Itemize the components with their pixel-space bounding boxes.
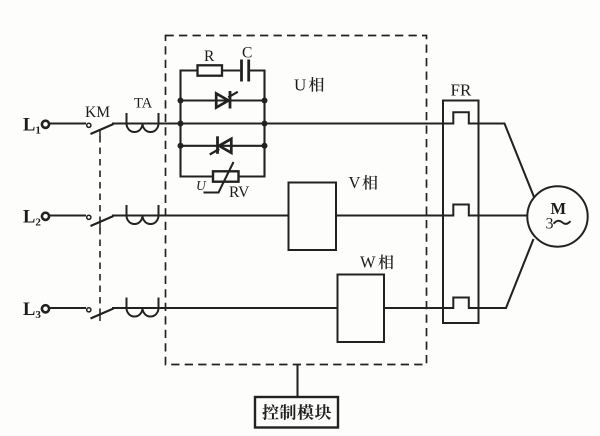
wire L3 to KM bbox=[50, 307, 86, 309]
U-phase right bus bbox=[263, 71, 265, 177]
junction dot bbox=[178, 143, 184, 149]
thermal relay FR box bbox=[443, 101, 479, 324]
contactor KM pole (row L2) bbox=[87, 215, 91, 219]
wire C to right bus bbox=[250, 70, 266, 72]
resistor R bbox=[198, 65, 223, 75]
wire RV branch left bbox=[180, 176, 214, 178]
control module box bbox=[255, 397, 338, 428]
thyristor VT2 (reverse) bbox=[219, 139, 231, 153]
wire FR to motor (top) bbox=[479, 124, 535, 198]
FR heater element row3 bbox=[442, 298, 480, 309]
W-phase module box bbox=[338, 275, 385, 343]
wire RC branch left bbox=[180, 70, 198, 72]
wire SCR2 branch bbox=[181, 145, 265, 147]
motor M circle bbox=[527, 186, 587, 246]
wire enclosure to control module bbox=[296, 365, 298, 398]
junction dot bbox=[178, 121, 184, 127]
wire TA to V-phase box bbox=[159, 214, 289, 216]
wire KM through TA bbox=[112, 307, 162, 309]
current transformer TA (row L3) bbox=[127, 298, 159, 317]
wire L1 to KM bbox=[50, 122, 86, 124]
wire U network to FR bbox=[265, 122, 444, 124]
contactor KM pole (row L3) bbox=[87, 308, 91, 312]
current transformer TA (row L2) bbox=[127, 205, 159, 224]
svg-text:W: W bbox=[360, 253, 376, 272]
svg-text:U: U bbox=[196, 178, 207, 193]
wire RV to right bus bbox=[239, 176, 266, 178]
svg-text:TA: TA bbox=[134, 96, 153, 112]
wire SCR1 branch bbox=[181, 99, 265, 101]
contactor KM pole (row L1) bbox=[87, 123, 91, 127]
wire FR to motor (middle) bbox=[479, 214, 528, 216]
wire FR to motor (bottom) bbox=[479, 239, 534, 308]
U-phase left bus bbox=[179, 71, 181, 177]
svg-text:R: R bbox=[204, 48, 215, 65]
wire KM through TA bbox=[112, 122, 162, 124]
wire W box to FR bbox=[384, 307, 443, 309]
capacitor C bbox=[240, 60, 243, 82]
svg-text:KM: KM bbox=[85, 104, 110, 121]
junction dot bbox=[178, 98, 184, 104]
wire V box to FR bbox=[336, 214, 443, 216]
wire R to C bbox=[222, 70, 240, 72]
terminal L3 circle bbox=[42, 305, 49, 312]
V-phase module box bbox=[289, 183, 337, 251]
varistor RV bbox=[213, 171, 239, 181]
wire U main row bbox=[181, 122, 265, 124]
thyristor VT1 (forward) bbox=[216, 94, 228, 108]
junction dot bbox=[262, 98, 268, 104]
svg-text:3: 3 bbox=[546, 216, 554, 233]
FR heater element row1 bbox=[442, 112, 480, 123]
KM mechanical linkage dashed line bbox=[99, 136, 101, 319]
wire L2 to KM bbox=[50, 214, 86, 216]
FR heater element row2 bbox=[442, 205, 480, 216]
svg-text:RV: RV bbox=[229, 184, 250, 201]
wire KM through TA bbox=[112, 214, 162, 216]
svg-text:FR: FR bbox=[451, 81, 472, 100]
junction dot bbox=[262, 121, 268, 127]
wire TA to U-phase network bbox=[159, 122, 181, 124]
terminal L2 circle bbox=[42, 213, 49, 220]
junction dot bbox=[262, 143, 268, 149]
svg-text:C: C bbox=[242, 45, 252, 62]
terminal L1 circle bbox=[42, 121, 49, 128]
svg-text:V: V bbox=[349, 173, 361, 192]
wire TA to W-phase box bbox=[159, 307, 338, 309]
svg-text:U: U bbox=[294, 76, 306, 95]
current transformer TA (row L1) bbox=[127, 113, 159, 132]
label control module (控制模块) bbox=[262, 404, 278, 420]
dashed module enclosure box bbox=[166, 36, 427, 365]
